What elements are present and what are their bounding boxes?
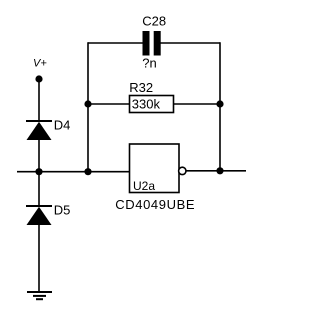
wire input horizontal <box>17 171 130 173</box>
wire right vertical feedback <box>219 42 221 171</box>
node V+ terminal dot <box>35 75 42 82</box>
capacitor C28 <box>143 31 161 56</box>
wire top-right horizontal (C28 to right vertical) <box>161 42 221 44</box>
diode D4 <box>26 121 52 140</box>
diode D5 <box>26 206 52 225</box>
inverter output bubble <box>179 167 186 174</box>
svg-text:?n: ?n <box>142 56 156 71</box>
svg-text:U2a: U2a <box>133 179 155 193</box>
wire top-left horizontal (left vertical to C28) <box>88 42 143 44</box>
wire D4 to input wire <box>38 140 40 172</box>
resistor R32 <box>130 96 174 113</box>
wire input wire to D5 <box>38 172 40 206</box>
node junction D4/input wire <box>35 168 42 175</box>
wire R32 right <box>174 103 221 105</box>
op-amp U1 inverter box U2a <box>130 144 180 193</box>
svg-text:D5: D5 <box>54 203 71 218</box>
node junction right-vert/R32 <box>216 100 223 107</box>
ground <box>27 292 52 299</box>
node junction left-vert/R32 <box>84 100 91 107</box>
svg-text:R32: R32 <box>129 80 153 95</box>
node junction left-vert/input wire <box>84 168 91 175</box>
wire left vertical feedback <box>87 42 89 171</box>
svg-text:CD4049UBE: CD4049UBE <box>115 197 195 212</box>
wire output horizontal <box>186 170 246 172</box>
wire V+ to D4 <box>38 79 40 121</box>
wire D5 to ground <box>38 225 40 292</box>
node junction output/right-vert <box>216 167 223 174</box>
svg-text:V+: V+ <box>33 58 47 70</box>
svg-text:D4: D4 <box>54 118 71 133</box>
wire R32 left <box>88 103 130 105</box>
svg-text:C28: C28 <box>142 14 166 29</box>
svg-text:330k: 330k <box>132 96 161 111</box>
